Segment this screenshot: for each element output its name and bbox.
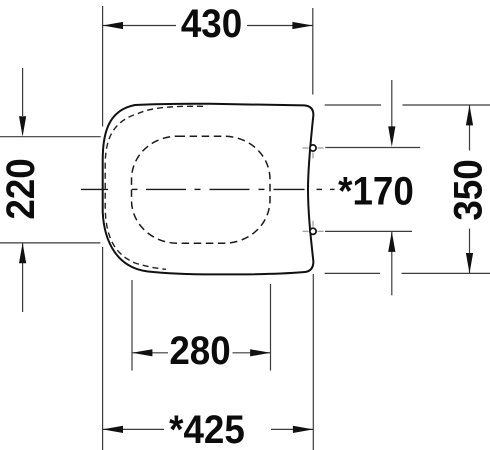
- dimension *170 extension line bottom: [325, 230, 412, 232]
- dimension 280 arrow left: [132, 349, 152, 356]
- dimension 220 arrow up: [19, 243, 26, 263]
- dimension 220 dimension line: [22, 68, 24, 312]
- dimension 220 arrow down: [19, 116, 26, 136]
- dimension 430 extension line left: [102, 6, 104, 127]
- dimension *170 arrow up: [388, 232, 395, 252]
- dimension *425 arrow left: [103, 426, 123, 433]
- dimension 350 extension line bottom: [325, 272, 490, 274]
- dimension 220 extension line top: [0, 136, 101, 138]
- dimension *425 arrow right: [293, 426, 313, 433]
- dimension 430 arrow right: [292, 22, 312, 29]
- svg-text:*425: *425: [169, 408, 245, 450]
- svg-text:350: 350: [446, 159, 490, 220]
- dimension 430 arrow left: [103, 22, 123, 29]
- dimension 350 dimension line: [469, 105, 471, 273]
- dimension 350 arrow up: [466, 105, 473, 125]
- horizontal centerline (dash-dot): [81, 188, 335, 190]
- svg-text:280: 280: [169, 329, 230, 374]
- dimension *425 extension line right: [312, 274, 314, 450]
- dimension *170 arrow down: [388, 126, 395, 146]
- dimension 350 extension line top: [325, 104, 490, 106]
- dimension 280 dimension line: [132, 352, 271, 354]
- dimension 220 extension line bottom: [0, 242, 100, 244]
- bottom hinge pin circle: [303, 221, 324, 235]
- top hinge pin circle: [303, 145, 324, 159]
- svg-text:*170: *170: [338, 169, 414, 214]
- dimension *425 extension line left: [102, 247, 104, 450]
- dimension *170 dimension line: [391, 80, 393, 295]
- dimension 280 extension line left: [131, 280, 133, 371]
- dimension 280 extension line right: [270, 284, 272, 371]
- seat lid outline: [103, 104, 314, 275]
- seat ring offset dashed line: [105, 106, 203, 269]
- dimension *425 dimension line: [103, 428, 314, 430]
- svg-text:220: 220: [0, 158, 43, 219]
- svg-text:430: 430: [181, 2, 242, 47]
- dimension 430 extension line right: [312, 8, 314, 95]
- dimension 280 arrow right: [250, 349, 270, 356]
- dimension 350 arrow down: [466, 253, 473, 273]
- inner bowl dashed oval: [132, 136, 271, 243]
- dimension 430 dimension line: [103, 25, 313, 27]
- dimension *170 extension line top: [325, 147, 420, 149]
